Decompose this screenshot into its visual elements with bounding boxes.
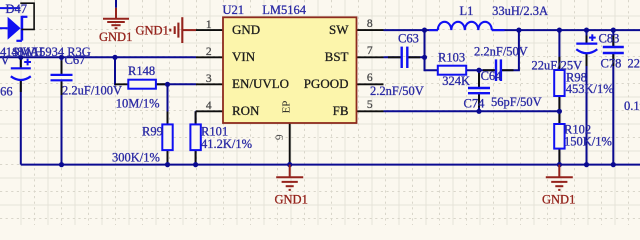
svg-text:U21: U21 (223, 3, 245, 17)
svg-text:EP: EP (281, 101, 293, 114)
pin 9 lead (289, 123, 291, 165)
wire R148 to EN/UVLO (156, 83, 196, 85)
svg-text:2.2nF/50V: 2.2nF/50V (370, 84, 424, 98)
svg-text:4: 4 (206, 100, 212, 112)
svg-text:7: 7 (367, 45, 373, 57)
wire snubber row b (502, 69, 520, 71)
wire C83 upper stem (586, 30, 588, 44)
wire C66 lower stem (20, 81, 22, 165)
svg-text:C67: C67 (65, 53, 86, 67)
svg-text:C64: C64 (481, 69, 503, 83)
capacitor C63 plates (401, 47, 403, 68)
svg-text:FB: FB (333, 103, 349, 118)
capacitor C64 plates (495, 59, 497, 81)
wire C83 lower stem (586, 53, 588, 164)
wire VIN rail (0, 56, 196, 58)
junction R102/GND rail (557, 162, 562, 167)
resistor R102 body (554, 124, 564, 149)
wire D47 anode lead (0, 27, 8, 29)
wire SW to L1 (384, 29, 438, 31)
svg-text:D47: D47 (6, 2, 28, 16)
resistor R98 pin leads (558, 57, 560, 70)
capacitor C66 pin leads (20, 60, 22, 69)
capacitor C67 pin leads (61, 61, 63, 74)
pin 8 lead (357, 29, 384, 31)
junction VOUT/C78 (611, 28, 616, 33)
svg-text:150K/1%: 150K/1% (564, 135, 612, 149)
svg-text:2: 2 (206, 46, 212, 58)
wire SW node vertical (424, 30, 426, 71)
inductor L1 leads (429, 29, 438, 31)
ground GND1 bottom-right (546, 165, 573, 190)
junction VOUT/C64 (516, 28, 521, 33)
junction SW/BST (422, 55, 427, 60)
wire GND1 top stem net (115, 0, 117, 8)
svg-text:GND1: GND1 (136, 24, 169, 38)
svg-text:56pF/50V: 56pF/50V (491, 95, 542, 109)
resistor R102 pin leads (558, 111, 560, 124)
svg-text:C78: C78 (601, 57, 622, 71)
pin 5 lead (357, 110, 384, 112)
op-amp U21 body (223, 17, 357, 123)
svg-text:324K: 324K (442, 74, 470, 88)
svg-text:8: 8 (367, 18, 373, 30)
wire ground rail (21, 164, 640, 166)
wire C67 lower stem (61, 81, 63, 164)
svg-text:V: V (1, 54, 10, 68)
wire R102 column (558, 111, 560, 164)
wire C78 lower stem (612, 54, 614, 165)
capacitor C83 pin leads (586, 36, 588, 44)
wire C74 lower stem (478, 94, 480, 111)
wire C74 upper stem (478, 70, 480, 87)
resistor R148 pin leads (115, 83, 128, 85)
capacitor C64 pin leads (483, 69, 495, 71)
svg-text:10M/1%: 10M/1% (116, 97, 160, 111)
svg-text:C74: C74 (464, 97, 486, 111)
capacitor C78 plates (603, 46, 624, 48)
resistor R103 body (438, 66, 466, 75)
junction R103/C64/C74 (476, 68, 481, 73)
junction C78/GND rail (611, 162, 616, 167)
svg-text:C83: C83 (599, 31, 620, 45)
svg-text:R103: R103 (438, 51, 465, 65)
capacitor C67 plates (51, 74, 73, 76)
svg-text:2.2nF/50V: 2.2nF/50V (474, 44, 528, 58)
svg-text:GND1: GND1 (275, 193, 308, 207)
junction FB divider (557, 109, 562, 114)
svg-text:R148: R148 (128, 64, 155, 78)
junction R99/GND rail (165, 162, 170, 167)
wire C66 upper stem (20, 57, 22, 68)
svg-text:41.2K/1%: 41.2K/1% (201, 137, 252, 151)
inductor L1 body (438, 22, 492, 30)
junction C83/GND rail (584, 162, 589, 167)
ground GND1 top-left (103, 8, 129, 28)
junction C67/GND rail (59, 162, 64, 167)
svg-text:GND1: GND1 (542, 193, 575, 207)
wire R99 column (167, 84, 169, 164)
junction R101/GND rail (193, 162, 198, 167)
svg-text:5: 5 (367, 99, 373, 111)
svg-text:33uH/2.3A: 33uH/2.3A (492, 4, 548, 18)
junction VOUT/C83 (584, 28, 589, 33)
capacitor C66 plus (24, 61, 31, 63)
junction C74/FB (476, 109, 481, 114)
junction C67/VIN (59, 55, 64, 60)
wire R98 column (558, 30, 560, 111)
ground GND1 bottom-center (276, 165, 303, 190)
svg-text:300K/1%: 300K/1% (112, 151, 160, 165)
pin 2 lead (196, 56, 223, 58)
wire snubber row a (425, 69, 495, 71)
pin 1 lead (196, 29, 223, 31)
svg-text:22uF: 22uF (628, 57, 640, 71)
wire D47 top net (0, 7, 20, 9)
resistor R101 body (190, 124, 200, 150)
svg-text:1: 1 (206, 19, 212, 31)
diode D47 body (8, 17, 21, 40)
svg-text:R99: R99 (142, 125, 163, 139)
junction R148/VIN (112, 55, 117, 60)
svg-text:3: 3 (206, 73, 212, 85)
diode D47 cathode (21, 16, 24, 41)
resistor R101 pin leads (195, 111, 197, 124)
junction C66/VIN (18, 55, 23, 60)
wire FB net (384, 110, 560, 112)
diode D47 zener hooks (22, 16, 28, 18)
ground GND1 sideways (pin 1) (170, 17, 196, 43)
wire C78 upper stem (612, 30, 614, 47)
svg-text:GND: GND (232, 22, 260, 37)
svg-text:RON: RON (232, 103, 260, 118)
wire VOUT drop to C64 (518, 30, 520, 70)
svg-text:9: 9 (274, 134, 286, 140)
capacitor C83 plates (576, 42, 597, 44)
resistor R98 body (554, 70, 564, 96)
svg-text:L1: L1 (460, 4, 474, 18)
capacitor C63 pin leads (388, 56, 401, 58)
resistor R148 body (128, 80, 156, 89)
svg-text:GND1: GND1 (99, 30, 132, 44)
svg-text:PGOOD: PGOOD (304, 76, 349, 91)
wire BST segment a (384, 56, 401, 58)
pin 6 lead (357, 83, 384, 85)
pin 3 lead (196, 83, 223, 85)
wire L1 to VOUT rail (492, 29, 640, 31)
wire BST segment b (408, 56, 424, 58)
svg-text:VIN: VIN (232, 49, 256, 64)
wire C67 upper stem (61, 57, 63, 74)
junction EP/GND rail (287, 162, 292, 167)
svg-text:C66: C66 (0, 84, 13, 98)
capacitor C74 plates (468, 87, 490, 89)
svg-text:EN/UVLO: EN/UVLO (232, 76, 289, 91)
svg-text:SW: SW (329, 22, 349, 37)
svg-text:BST: BST (325, 49, 349, 64)
svg-text:6: 6 (367, 72, 373, 84)
svg-text:0.1u: 0.1u (624, 99, 640, 113)
resistor R99 body (162, 124, 172, 150)
capacitor C83 plus (589, 37, 596, 39)
pin 7 lead (357, 56, 384, 58)
wire R101 column (195, 110, 197, 112)
svg-text:LM5164: LM5164 (262, 3, 307, 17)
capacitor C74 pin leads (478, 73, 480, 87)
capacitor C78 pin leads (612, 36, 614, 47)
component body outline (black box) (20, 3, 34, 29)
svg-text:2.2uF/100V: 2.2uF/100V (62, 84, 122, 98)
junction R99/EN (165, 82, 170, 87)
svg-text:453K/1%: 453K/1% (566, 82, 614, 96)
junction VOUT/R98 (557, 28, 562, 33)
resistor R99 pin leads (167, 112, 169, 125)
capacitor C66 plates (11, 67, 31, 69)
svg-text:C63: C63 (398, 31, 419, 45)
junction SW node top (422, 28, 427, 33)
pin 4 lead (196, 110, 223, 112)
wire R148 branch vertical (114, 57, 116, 85)
